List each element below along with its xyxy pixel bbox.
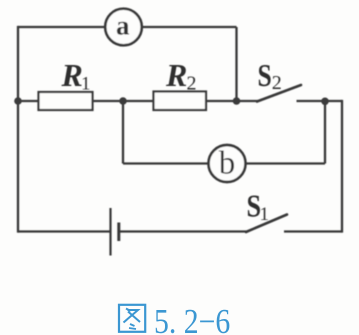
label R2 — [165, 57, 197, 95]
svg-text:R: R — [61, 57, 83, 93]
wire bottom: S1 contact to right corner — [284, 230, 342, 232]
wire bottom: left corner to battery — [18, 230, 110, 232]
wire top (left corner to meter a to right corner) — [18, 26, 237, 28]
svg-text:1: 1 — [81, 74, 91, 95]
wire middle: R1 to node B — [92, 100, 155, 102]
wire bottom: battery to switch S1 hinge — [119, 230, 247, 232]
wire middle: node A to R1 — [18, 100, 40, 102]
battery long plate — [109, 208, 111, 256]
hanzi tu box — [119, 305, 145, 332]
resistor R1 — [39, 92, 93, 110]
label R1 — [61, 57, 91, 95]
meter a — [105, 9, 142, 46]
svg-text:S: S — [258, 58, 272, 93]
meter b — [209, 145, 246, 182]
wire middle: R2 to node C — [205, 100, 237, 102]
wire b-branch: horizontal to meter b — [123, 162, 212, 164]
wire b-branch: node B down — [122, 101, 124, 164]
battery short plate — [117, 223, 120, 242]
svg-text:5. 2−6: 5. 2−6 — [154, 303, 230, 335]
hanzi tu inner strokes — [126, 309, 131, 312]
svg-text:R: R — [165, 57, 187, 93]
node C (after R2) — [233, 97, 241, 105]
wire drop from top-right corner down to node C — [235, 27, 237, 101]
wire b-branch: meter b to right — [242, 162, 325, 164]
svg-text:1: 1 — [260, 204, 270, 225]
label S1 — [247, 189, 270, 225]
svg-text:2: 2 — [272, 72, 282, 94]
node A (left junction) — [14, 97, 22, 105]
svg-text:2: 2 — [187, 73, 197, 95]
wire b-branch: up to node D — [324, 101, 326, 164]
node D (right of S2 contact) — [321, 98, 329, 106]
caption figure number 图 5.2-6 — [119, 305, 145, 332]
wire node C to switch S2 hinge — [237, 100, 259, 102]
wire left vertical — [17, 26, 19, 233]
svg-text:a: a — [116, 10, 130, 40]
resistor R2 — [154, 92, 207, 111]
wire right vertical — [341, 100, 343, 233]
svg-text:b: b — [219, 146, 236, 182]
switch S2 blade — [257, 85, 301, 102]
wire S2 contact to right corner — [297, 100, 343, 102]
switch S1 blade — [246, 215, 287, 233]
node B (between R1 and R2) — [119, 97, 127, 105]
label S2 — [258, 58, 282, 94]
